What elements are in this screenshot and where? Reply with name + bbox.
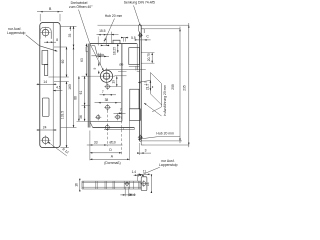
svg-text:in Ausführung 20 mm: in Ausführung 20 mm	[163, 85, 167, 116]
dim 20.75 right view	[151, 53, 153, 64]
svg-text:Hub 20 mm: Hub 20 mm	[156, 132, 174, 136]
bolt window	[42, 98, 49, 116]
dim 24 across plate	[37, 129, 57, 131]
svg-text:63: 63	[80, 58, 84, 62]
bottom view mid hole	[125, 182, 128, 185]
bottom view ticks	[82, 181, 84, 189]
latch window	[42, 51, 48, 65]
dim 235	[188, 23, 190, 147]
dim 21.5 inside flag	[149, 80, 151, 90]
label Dornmass	[104, 161, 120, 165]
leader hub bottom with underline	[158, 136, 180, 138]
extension lines bottom dims	[89, 131, 91, 161]
dim B above faceplate	[37, 11, 63, 13]
svg-text:zum Öffnen 40°: zum Öffnen 40°	[69, 5, 93, 9]
svg-text:Ø9: Ø9	[119, 63, 123, 67]
svg-text:60: 60	[61, 60, 65, 64]
ext and arrow at 111.3 top	[110, 32, 112, 44]
svg-text:1.4: 1.4	[132, 170, 137, 174]
case bottom chamfer	[90, 121, 93, 127]
dim 7 hole to case back	[114, 112, 126, 114]
svg-text:8: 8	[56, 38, 58, 42]
svg-text:Lappenstulp: Lappenstulp	[7, 31, 26, 35]
follower nut	[100, 70, 112, 82]
case right edge	[121, 44, 123, 122]
svg-text:33: 33	[94, 140, 98, 144]
svg-text:7: 7	[102, 90, 104, 94]
svg-text:7: 7	[103, 40, 105, 44]
main view stulp pair	[87, 44, 89, 128]
small step below bolt	[135, 66, 137, 70]
label Hub 20 mm bottom	[156, 132, 174, 136]
label O9 follower	[119, 63, 123, 67]
label nur Ausf Lappenstulp bottom right	[161, 159, 174, 163]
dim D dornmass	[90, 152, 122, 154]
svg-text:35: 35	[68, 34, 72, 38]
radius R12 leader with arrow	[48, 142, 67, 156]
label Senkung DIN 74-Af5	[124, 1, 155, 5]
leader lappenstulp bottom	[141, 167, 160, 175]
svg-text:Drehwinkel: Drehwinkel	[71, 1, 88, 5]
dim 9 follower	[93, 67, 97, 69]
svg-text:38: 38	[105, 98, 109, 102]
svg-text:Lappenstulp: Lappenstulp	[159, 163, 178, 167]
right view stulp pair	[139, 32, 141, 142]
hole mid dia 10	[106, 105, 110, 109]
svg-text:(Dornmaß): (Dornmaß)	[104, 161, 120, 165]
leader lappenstulp top	[26, 35, 40, 46]
dim 88 outer left	[78, 76, 80, 121]
arrow stub at 70.3	[69, 26, 71, 31]
label nur Ausf Lappenstulp top left	[8, 27, 21, 31]
hole right low	[116, 115, 120, 119]
label Hub 20 mm top	[105, 14, 123, 18]
svg-text:Senkung DIN 74-Af5: Senkung DIN 74-Af5	[124, 1, 155, 5]
dim 5.5 countersink top	[122, 38, 124, 42]
svg-text:nur Ausf.: nur Ausf.	[161, 159, 174, 163]
dim 1.5 stulp thickness	[143, 81, 147, 86]
svg-text:7: 7	[120, 108, 122, 112]
right view top tab	[138, 25, 140, 31]
svg-text:18.25: 18.25	[112, 47, 116, 55]
dim 1.4 cap thickness	[136, 174, 138, 181]
dim 60	[66, 47, 68, 77]
svg-text:Ø4.6: Ø4.6	[128, 193, 135, 197]
svg-text:160: 160	[68, 84, 72, 90]
right view top screw	[139, 34, 142, 37]
dim 38 between holes	[95, 102, 122, 104]
right view bottom tab	[140, 140, 142, 142]
dim 18.25	[117, 44, 119, 53]
dim 35	[73, 26, 75, 47]
svg-text:20.75: 20.75	[147, 53, 151, 61]
dim 7 hole diameter	[100, 94, 117, 96]
hole below follower dia 7	[106, 85, 110, 89]
dim 19	[116, 76, 118, 86]
case bottom edge	[93, 127, 135, 129]
bottom flange hole	[105, 125, 109, 129]
leader hub top	[105, 19, 115, 42]
svg-text:16: 16	[146, 182, 150, 186]
dim 133.5	[66, 82, 68, 148]
dim 63 left	[85, 44, 87, 77]
top screw hole	[42, 29, 49, 36]
svg-text:209: 209	[171, 84, 175, 90]
dim 16 end cap	[150, 175, 152, 193]
faceplate top inner arch	[40, 27, 51, 39]
label in Ausfuehrung	[163, 85, 167, 116]
diagonal leader lower	[144, 103, 162, 116]
dim 14 across plate	[37, 83, 57, 85]
dim 209	[179, 27, 181, 144]
deadbolt hidden lines	[105, 69, 146, 71]
svg-text:133.5: 133.5	[61, 111, 65, 119]
dim 11 cap	[138, 173, 150, 175]
40 deg leader line into follower	[79, 10, 90, 44]
lower box right view	[130, 109, 141, 121]
dim 160	[73, 47, 75, 128]
bottom view bar inner lines	[82, 182, 141, 184]
svg-text:19: 19	[111, 80, 115, 84]
svg-text:14: 14	[43, 80, 47, 84]
dim 4.5 leader	[53, 90, 62, 92]
dim 61 left	[84, 76, 86, 105]
right view bottom screw	[139, 136, 142, 139]
svg-text:4.5: 4.5	[56, 86, 61, 90]
latch sub window	[45, 65, 48, 76]
thrown deadbolt box	[129, 48, 140, 65]
svg-text:24: 24	[43, 125, 47, 129]
bottom view end hole	[142, 182, 146, 186]
left view faceplate outer plate	[40, 23, 60, 148]
flag leader arrow to stulp	[138, 80, 150, 82]
svg-text:3: 3	[145, 148, 147, 152]
leader senkung to right view tab	[134, 5, 141, 26]
svg-text:21.5: 21.5	[145, 84, 149, 90]
dim A	[90, 158, 130, 160]
svg-text:61: 61	[79, 91, 83, 95]
svg-text:Ø10: Ø10	[109, 140, 115, 144]
svg-text:15.5: 15.5	[99, 29, 106, 33]
svg-text:16: 16	[74, 183, 78, 187]
svg-text:36: 36	[79, 115, 83, 119]
dim 8 screw to edge	[44, 41, 56, 43]
bottom view bar outer	[82, 180, 141, 182]
dim dia 4.6 mid hole	[124, 187, 126, 197]
latch body	[91, 45, 94, 47]
svg-text:235: 235	[183, 85, 187, 91]
bottom screw hole	[42, 137, 49, 144]
svg-text:88: 88	[73, 96, 77, 100]
top edge bump	[113, 40, 120, 43]
cylinder box right view	[130, 89, 139, 109]
right view case front line	[136, 44, 138, 70]
svg-text:9: 9	[93, 67, 97, 69]
dim C top	[135, 39, 151, 41]
faceplate inner vertical boundary	[52, 23, 54, 148]
dim 33 and dia 10 line	[87, 144, 123, 146]
label Drehwinkel zum Oeffnen 40 deg	[71, 1, 88, 5]
dim 7 latch top	[101, 44, 110, 46]
hole left low	[96, 115, 100, 119]
dim 16 bottom view left	[79, 179, 81, 191]
dim 3 stulp offset	[137, 152, 151, 154]
bottom flange lower line	[104, 129, 134, 131]
svg-text:nur Ausf.: nur Ausf.	[8, 27, 21, 31]
svg-text:5.5: 5.5	[131, 36, 136, 40]
extension lines for 209 and 235	[98, 24, 190, 26]
bottom view lappen end cap	[141, 177, 147, 191]
case top edge	[90, 43, 137, 45]
extension lines of left chain	[61, 25, 77, 27]
svg-text:Hub 20 mm: Hub 20 mm	[105, 14, 123, 18]
flag parallelogram	[150, 73, 161, 84]
dim small at latch rear	[96, 55, 109, 57]
dim 36 left	[84, 105, 86, 121]
case inner bottom line	[90, 120, 122, 122]
dim 15.5 top	[97, 34, 109, 36]
